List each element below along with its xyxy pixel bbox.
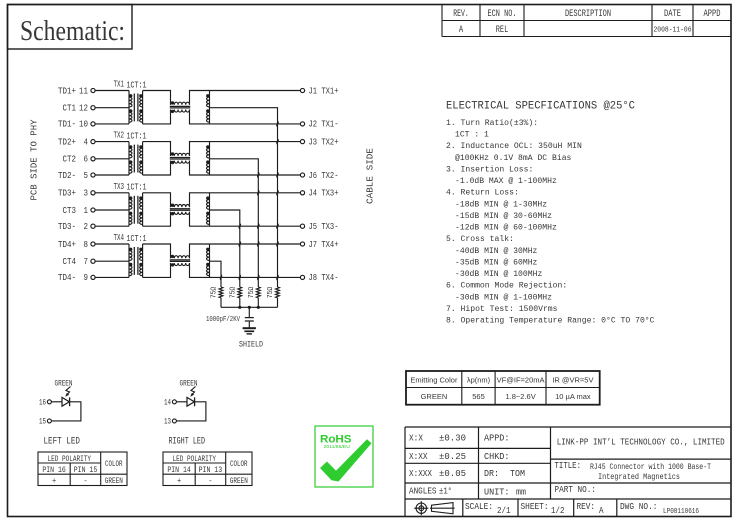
TX1 secondary winding <box>139 91 142 124</box>
wire choke to TX1 cable-side winding bottom <box>190 110 210 124</box>
LED D1 (LEFT LED) <box>39 380 81 448</box>
transformer TX4 label <box>114 232 147 244</box>
svg-text:TX1: TX1 <box>114 79 125 90</box>
svg-text:TD2-: TD2- <box>58 170 76 181</box>
svg-text:-15dB MIN @ 30-60MHz: -15dB MIN @ 30-60MHz <box>455 211 552 221</box>
svg-text:1.8~2.6V: 1.8~2.6V <box>505 392 535 401</box>
wire TD4- to TX4 primary bottom <box>95 276 129 278</box>
svg-text:5: 5 <box>84 170 89 181</box>
svg-text:13: 13 <box>164 417 171 427</box>
wire TD2+ to TX2 primary top <box>95 141 129 143</box>
svg-text:1CT:1: 1CT:1 <box>127 182 147 193</box>
svg-text:REL: REL <box>496 25 509 36</box>
RIGHT LED polarity table <box>163 452 252 486</box>
svg-text:75Ω: 75Ω <box>211 287 219 299</box>
svg-text:APPD: APPD <box>704 9 721 20</box>
svg-text:REV:: REV: <box>577 502 596 512</box>
TX4 primary winding (center-tapped) <box>129 244 132 277</box>
svg-text:2/1: 2/1 <box>497 506 511 516</box>
svg-text:J5 TX3-: J5 TX3- <box>309 221 339 232</box>
svg-text:-: - <box>84 476 88 486</box>
revision table <box>442 5 731 37</box>
wire TX2 to J3 TX2+ <box>210 141 301 143</box>
svg-text:+: + <box>52 476 56 486</box>
svg-text:GREEN: GREEN <box>421 392 448 401</box>
svg-text:1CT : 1: 1CT : 1 <box>455 130 489 140</box>
svg-text:TD2+: TD2+ <box>58 136 76 147</box>
svg-text:TD3+: TD3+ <box>58 188 76 199</box>
svg-text:-12dB MIN @ 60-100MHz: -12dB MIN @ 60-100MHz <box>455 223 557 233</box>
svg-text:CT1: CT1 <box>63 103 77 114</box>
svg-text:LINK-PP INT’L TECHNOLOGY CO.,: LINK-PP INT’L TECHNOLOGY CO., LIMITED <box>557 437 725 448</box>
svg-text:LP08110616: LP08110616 <box>663 508 699 516</box>
TX2 common-mode choke <box>170 152 190 164</box>
svg-text:PIN 16: PIN 16 <box>42 465 66 475</box>
svg-text:-40dB MIN @ 30MHz: -40dB MIN @ 30MHz <box>455 246 537 256</box>
svg-text:CHKD:: CHKD: <box>484 452 510 462</box>
wire TX2 to J6 TX2- <box>210 174 301 176</box>
pin 7 (CT4) <box>63 256 96 267</box>
svg-text:A: A <box>459 25 463 36</box>
wire choke to TX4 cable-side winding top <box>190 244 210 258</box>
TX2 cable-side center-tapped winding <box>206 142 209 175</box>
svg-text:75Ω: 75Ω <box>230 287 238 299</box>
svg-text:LED POLARITY: LED POLARITY <box>48 454 92 464</box>
junction R3/bus <box>257 306 260 309</box>
svg-text:X:X: X:X <box>409 434 424 444</box>
wire choke to TX1 cable-side winding top <box>190 91 210 105</box>
wire choke to TX3 cable-side winding top <box>190 193 210 207</box>
svg-text:Schematic:: Schematic: <box>20 16 125 47</box>
wire TD4+ to TX4 primary top <box>95 243 129 245</box>
svg-text:5. Cross talk:: 5. Cross talk: <box>446 234 514 244</box>
svg-text:9: 9 <box>84 272 89 283</box>
TX2 secondary winding <box>139 142 142 175</box>
svg-text:APPD:: APPD: <box>484 434 510 444</box>
pin J7 TX4+ <box>300 239 338 250</box>
wire crossing at J8 <box>220 275 221 280</box>
shield ground <box>239 328 263 349</box>
svg-text:RJ45 Connector with 1000 Base-: RJ45 Connector with 1000 Base-T <box>590 462 711 472</box>
svg-text:2008-11-06: 2008-11-06 <box>654 26 692 34</box>
wire crossing at J6 <box>277 172 278 177</box>
svg-text:LED POLARITY: LED POLARITY <box>173 454 217 464</box>
svg-text:ELECTRICAL SPECFICATIONS @25°C: ELECTRICAL SPECFICATIONS @25°C <box>446 101 635 113</box>
svg-text:GREEN: GREEN <box>230 476 248 486</box>
LEFT LED polarity table <box>38 452 127 486</box>
transformer TX2 label <box>114 130 147 142</box>
svg-text:6. Common Mode Rejection:: 6. Common Mode Rejection: <box>446 281 567 291</box>
svg-text:mm: mm <box>516 488 526 498</box>
svg-text:-1.0dB MAX @ 1-100MHz: -1.0dB MAX @ 1-100MHz <box>455 176 557 186</box>
wire TX4 to J7 TX4+ <box>210 243 301 245</box>
title box "Schematic:" <box>8 5 133 50</box>
wire TX2 secondary bottom to choke <box>143 161 171 175</box>
svg-text:-18dB MIN @ 1-30MHz: -18dB MIN @ 1-30MHz <box>455 199 547 209</box>
wire TX1 secondary top to choke <box>143 91 171 105</box>
svg-text:J2 TX1-: J2 TX1- <box>309 119 339 130</box>
wire TX1 to J2 TX1- <box>210 123 301 125</box>
svg-text:TX3: TX3 <box>114 181 125 192</box>
capacitor C1 1000pF/2KV <box>206 307 254 327</box>
svg-text:TITLE:: TITLE: <box>555 461 582 471</box>
svg-text:TD4+: TD4+ <box>58 239 76 250</box>
tolerance and approval cells <box>409 434 526 498</box>
svg-text:565: 565 <box>472 392 485 401</box>
wire TX3 secondary bottom to choke <box>143 212 171 226</box>
wire choke to TX3 cable-side winding bottom <box>190 212 210 226</box>
svg-text:ANGLES: ANGLES <box>409 487 437 497</box>
svg-text:TD1+: TD1+ <box>58 85 76 96</box>
svg-text:λp(nm): λp(nm) <box>467 375 491 384</box>
title block grid <box>405 427 731 517</box>
svg-text:J3 TX2+: J3 TX2+ <box>309 136 339 147</box>
wire choke to TX2 cable-side winding bottom <box>190 161 210 175</box>
pin J1 TX1+ <box>300 85 338 96</box>
svg-text:PART NO.:: PART NO.: <box>555 485 597 495</box>
svg-text:LEFT LED: LEFT LED <box>44 435 81 447</box>
svg-text:PCB SIDE TO PHY: PCB SIDE TO PHY <box>29 119 40 200</box>
wire TX1 to J1 TX1+ <box>210 90 301 92</box>
svg-text:TX4: TX4 <box>114 232 125 243</box>
wire CT4 to TX4 primary center tap <box>95 260 129 262</box>
wire TX2 secondary top to choke <box>143 142 171 156</box>
pin J6 TX2- <box>300 170 338 181</box>
drawing title <box>555 461 712 482</box>
transformer TX1 label <box>114 79 147 91</box>
TX2 transformer core <box>134 145 138 173</box>
svg-text:1000pF/2KV: 1000pF/2KV <box>206 316 241 324</box>
svg-text:CT3: CT3 <box>63 205 77 216</box>
resistor R1 75Ω <box>211 287 223 308</box>
pin J2 TX1- <box>300 119 338 130</box>
svg-text:SHEET:: SHEET: <box>521 502 549 512</box>
pin J3 TX2+ <box>300 136 338 147</box>
wire crossing at J7 <box>258 241 259 246</box>
wire TX3 to J4 TX3+ <box>210 192 301 194</box>
svg-text:TD1-: TD1- <box>58 119 76 130</box>
svg-text:SCALE:: SCALE: <box>465 502 493 512</box>
svg-text:±0.25: ±0.25 <box>439 452 466 462</box>
svg-text:TX2: TX2 <box>114 130 125 141</box>
wire CT3 to TX3 primary center tap <box>95 209 129 211</box>
svg-text:±0.05: ±0.05 <box>439 469 466 479</box>
svg-text:10 µA max: 10 µA max <box>555 392 591 401</box>
svg-text:-30dB MIN @ 100MHz: -30dB MIN @ 100MHz <box>455 269 542 279</box>
LED D2 (RIGHT LED) <box>164 380 206 448</box>
pin 10 (TD1-) <box>58 119 95 130</box>
wire crossing at J7 <box>277 241 278 246</box>
wire TX3 center tap to termination resistor <box>210 210 240 287</box>
junction R2/bus <box>238 306 241 309</box>
svg-text:DWG NO.:: DWG NO.: <box>620 502 658 512</box>
svg-text:VF@IF=20mA: VF@IF=20mA <box>497 375 545 384</box>
svg-text:+: + <box>177 476 181 486</box>
svg-text:12: 12 <box>79 103 88 114</box>
TX2 primary winding (center-tapped) <box>129 142 132 175</box>
wire TX3 to J5 TX3- <box>210 225 301 227</box>
wire crossing at J8 <box>258 275 259 280</box>
wire crossing at J8 <box>277 275 278 280</box>
pin 2 (TD3-) <box>58 221 95 232</box>
svg-text:TD4-: TD4- <box>58 272 76 283</box>
wire CT2 to TX2 primary center tap <box>95 158 129 160</box>
pin 4 (TD2+) <box>58 136 95 147</box>
svg-text:GREEN: GREEN <box>105 476 123 486</box>
svg-text:PIN 14: PIN 14 <box>167 465 191 475</box>
svg-text:3. Insertion Loss:: 3. Insertion Loss: <box>446 165 533 175</box>
svg-text:2011/65/EU: 2011/65/EU <box>324 444 350 449</box>
scale / sheet / rev / dwg cells <box>465 502 699 516</box>
wire TD3+ to TX3 primary top <box>95 192 129 194</box>
resistor R2 75Ω <box>230 287 242 308</box>
pin 3 (TD3+) <box>58 188 95 199</box>
wire TD1+ to TX1 primary top <box>95 90 129 92</box>
svg-text:75Ω: 75Ω <box>248 287 256 299</box>
svg-text:CT2: CT2 <box>63 154 77 165</box>
pin 6 (CT2) <box>63 154 96 165</box>
wire crossing at J3 <box>277 139 278 144</box>
svg-text:J4 TX3+: J4 TX3+ <box>309 188 339 199</box>
wire TD3- to TX3 primary bottom <box>95 225 129 227</box>
pin 11 (TD1+) <box>58 85 95 96</box>
resistor R3 75Ω <box>248 287 260 308</box>
svg-text:10: 10 <box>79 119 88 130</box>
pin J4 TX3+ <box>300 188 338 199</box>
RoHS compliance logo <box>315 426 373 487</box>
svg-text:Integrated Magnetics: Integrated Magnetics <box>598 472 680 482</box>
wire CT1 to TX1 primary center tap <box>95 107 129 109</box>
wire crossing at J6 <box>258 172 259 177</box>
svg-text:COLOR: COLOR <box>230 459 248 469</box>
svg-text:16: 16 <box>39 398 46 408</box>
svg-text:TD3-: TD3- <box>58 221 76 232</box>
wire TX1 secondary bottom to choke <box>143 110 171 124</box>
pin J8 TX4- <box>300 272 338 283</box>
svg-text:14: 14 <box>164 398 171 408</box>
svg-text:1/2: 1/2 <box>551 506 565 516</box>
TX3 secondary winding <box>139 193 142 226</box>
svg-text:8. Operating Temperature Range: 8. Operating Temperature Range: 0°C TO 7… <box>446 316 655 326</box>
svg-text:J6 TX2-: J6 TX2- <box>309 170 339 181</box>
TX4 common-mode choke <box>170 255 190 267</box>
TX4 transformer core <box>134 247 138 275</box>
svg-text:1. Turn Ratio(±3%):: 1. Turn Ratio(±3%): <box>446 118 538 128</box>
svg-text:PIN 15: PIN 15 <box>74 465 98 475</box>
svg-text:1CT:1: 1CT:1 <box>127 79 147 90</box>
TX1 cable-side center-tapped winding <box>206 91 209 124</box>
svg-text:±0.30: ±0.30 <box>439 434 466 444</box>
svg-text:6: 6 <box>84 154 89 165</box>
pin 12 (CT1) <box>63 103 96 114</box>
svg-text:X:XXX: X:XXX <box>409 469 433 479</box>
svg-text:J1 TX1+: J1 TX1+ <box>309 85 339 96</box>
svg-text:-30dB MIN @ 1-100MHz: -30dB MIN @ 1-100MHz <box>455 292 552 302</box>
wire TX4 secondary bottom to choke <box>143 263 171 277</box>
svg-text:CABLE SIDE: CABLE SIDE <box>365 148 376 204</box>
svg-text:DESCRIPTION: DESCRIPTION <box>565 9 611 20</box>
wire TX1 center tap to termination resistor <box>210 108 278 287</box>
wire choke to TX2 cable-side winding top <box>190 142 210 156</box>
svg-text:TOM: TOM <box>510 469 525 479</box>
svg-text:4. Return Loss:: 4. Return Loss: <box>446 188 519 198</box>
svg-text:UNIT:: UNIT: <box>484 488 510 498</box>
svg-text:A: A <box>599 506 604 516</box>
svg-text:DR:: DR: <box>484 469 499 479</box>
electrical specifications notes <box>446 101 655 326</box>
wire crossing at J7 <box>239 241 240 246</box>
svg-text:1: 1 <box>84 205 89 216</box>
wire crossing at J5 <box>277 224 278 229</box>
wire crossing at J4 <box>277 190 278 195</box>
svg-text:RIGHT LED: RIGHT LED <box>169 435 206 447</box>
wire crossing at J4 <box>258 190 259 195</box>
wire choke to TX4 cable-side winding bottom <box>190 263 210 277</box>
resistor R4 75Ω <box>267 287 279 308</box>
svg-text:COLOR: COLOR <box>105 459 123 469</box>
wire TX2 center tap to termination resistor <box>210 159 259 287</box>
pin 1 (CT3) <box>63 205 96 216</box>
svg-text:J8 TX4-: J8 TX4- <box>309 272 339 283</box>
wire crossing at J5 <box>258 224 259 229</box>
svg-text:J7 TX4+: J7 TX4+ <box>309 239 339 250</box>
TX3 cable-side center-tapped winding <box>206 193 209 226</box>
svg-text:3: 3 <box>84 188 89 199</box>
svg-text:7. Hipot Test: 1500Vrms: 7. Hipot Test: 1500Vrms <box>446 304 558 314</box>
svg-text:X:XX: X:XX <box>409 452 428 462</box>
svg-text:15: 15 <box>39 417 46 427</box>
TX1 transformer core <box>134 94 138 122</box>
svg-text:8: 8 <box>84 239 89 250</box>
third angle projection symbol <box>414 501 454 515</box>
wire termination bus <box>221 306 278 308</box>
svg-text:75Ω: 75Ω <box>267 287 275 299</box>
svg-text:1CT:1: 1CT:1 <box>127 130 147 141</box>
pin J5 TX3- <box>300 221 338 232</box>
svg-text:DATE: DATE <box>664 9 681 20</box>
wire crossing at J8 <box>239 275 240 280</box>
TX4 cable-side center-tapped winding <box>206 244 209 277</box>
TX3 common-mode choke <box>170 204 190 216</box>
wire crossing at J2 <box>277 121 278 126</box>
svg-text:SHIELD: SHIELD <box>239 340 263 350</box>
svg-text:ECN NO.: ECN NO. <box>488 9 517 20</box>
wire TD2- to TX2 primary bottom <box>95 174 129 176</box>
LED emitting color table <box>406 371 600 405</box>
svg-text:Emitting Color: Emitting Color <box>410 375 458 384</box>
junction cap/bus <box>248 306 251 309</box>
svg-text:PIN 13: PIN 13 <box>199 465 223 475</box>
TX3 primary winding (center-tapped) <box>129 193 132 226</box>
svg-text:2. Inductance OCL: 350uH MIN: 2. Inductance OCL: 350uH MIN <box>446 141 582 151</box>
pin 5 (TD2-) <box>58 170 95 181</box>
svg-text:7: 7 <box>84 256 89 267</box>
TX3 transformer core <box>134 196 138 224</box>
wire TD1- to TX1 primary bottom <box>95 123 129 125</box>
svg-text:4: 4 <box>84 136 89 147</box>
svg-text:CT4: CT4 <box>63 256 77 267</box>
pin 9 (TD4-) <box>58 272 95 283</box>
transformer TX3 label <box>114 181 147 193</box>
wire TX3 secondary top to choke <box>143 193 171 207</box>
svg-text:REV.: REV. <box>453 9 469 20</box>
svg-text:1CT:1: 1CT:1 <box>127 233 147 244</box>
svg-text:@100KHz 0.1V 8mA DC Bias: @100KHz 0.1V 8mA DC Bias <box>455 153 571 163</box>
wire TX4 to J8 TX4- <box>210 276 301 278</box>
svg-text:±1°: ±1° <box>439 487 452 497</box>
wire TX4 secondary top to choke <box>143 244 171 258</box>
wire crossing at J5 <box>239 224 240 229</box>
svg-text:-: - <box>208 476 212 486</box>
svg-text:-35dB MIN @ 60MHz: -35dB MIN @ 60MHz <box>455 257 537 267</box>
svg-text:2: 2 <box>84 221 89 232</box>
svg-text:11: 11 <box>79 85 88 96</box>
TX1 primary winding (center-tapped) <box>129 91 132 124</box>
pin 8 (TD4+) <box>58 239 95 250</box>
svg-text:IR @VR=5V: IR @VR=5V <box>552 375 593 384</box>
wire TX4 center tap to termination resistor <box>210 261 222 287</box>
TX1 common-mode choke <box>170 101 190 113</box>
TX4 secondary winding <box>139 244 142 277</box>
